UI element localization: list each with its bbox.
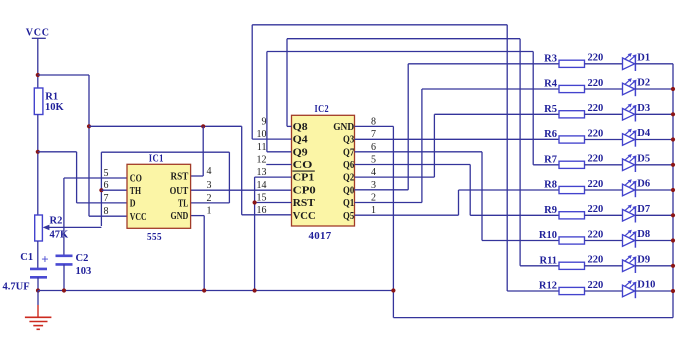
node CP1-RST junction (253, 200, 257, 204)
svg-text:Q3: Q3 (343, 134, 355, 146)
svg-text:D6: D6 (637, 179, 650, 190)
node bus junction D7 (671, 213, 675, 217)
svg-text:R4: R4 (544, 79, 558, 90)
op-amp U1 IC1 555 timer (127, 164, 191, 228)
wire 4017 pin13 CP1 tied to pin15 RST and rail (255, 176, 292, 178)
svg-text:R1: R1 (45, 92, 58, 103)
node bus junction D3 (671, 112, 675, 116)
resistor R1 (34, 88, 43, 115)
svg-text:C1: C1 (20, 252, 33, 263)
svg-text:D3: D3 (637, 103, 650, 114)
wire D7 to cathode bus (635, 214, 673, 216)
LED D1 (623, 58, 635, 70)
wire 555 OUT to 4017 CP0 (191, 189, 292, 191)
svg-text:220: 220 (588, 280, 604, 291)
svg-text:Q9: Q9 (293, 146, 309, 158)
wire R2 to C1 (37, 241, 39, 269)
svg-text:47K: 47K (50, 230, 70, 241)
svg-text:2: 2 (207, 193, 212, 204)
svg-text:R7: R7 (544, 154, 557, 165)
svg-text:RST: RST (171, 171, 189, 183)
wire A VCC distribution y126 (89, 125, 242, 127)
wire 555 pin6 TH stub (101, 189, 127, 191)
node CP1 rail junction (253, 288, 257, 292)
resistor R12 220 (559, 287, 585, 294)
svg-text:CO: CO (130, 173, 142, 185)
LED D4 (623, 134, 635, 146)
svg-text:D4: D4 (637, 128, 651, 139)
wire VCC branch to x=89 vertical (38, 74, 89, 76)
svg-text:4017: 4017 (309, 231, 332, 242)
svg-text:220: 220 (588, 229, 604, 240)
svg-text:Q7: Q7 (343, 146, 355, 158)
LED D5 (623, 159, 635, 171)
wire R1 to R2 (37, 115, 39, 216)
svg-text:R8: R8 (544, 180, 557, 191)
svg-text:1: 1 (207, 206, 212, 217)
wire R10 to LED D8 (585, 240, 623, 242)
capacitor C2 (56, 255, 73, 258)
wire R9 to LED D7 (585, 214, 623, 216)
node wireA branch at x89 (87, 124, 91, 128)
wire D6 to cathode bus (635, 189, 673, 191)
wire D3 to cathode bus (635, 113, 673, 115)
svg-text:6: 6 (104, 180, 109, 191)
svg-text:R12: R12 (539, 281, 557, 292)
svg-text:220: 220 (588, 255, 604, 266)
node TH junction (99, 188, 103, 192)
counter U2 IC2 4017 (292, 115, 355, 226)
wire 4017 pin7 Q3 to R6 row (355, 138, 560, 140)
svg-text:GND: GND (333, 121, 354, 133)
svg-text:8: 8 (104, 206, 109, 217)
node R1-R2 junction (36, 150, 40, 154)
wire 4017 pin1 Q5 to R8 row (355, 214, 459, 216)
node bus junction D8 (671, 238, 675, 242)
svg-text:R6: R6 (544, 129, 557, 140)
svg-text:Q1: Q1 (343, 197, 354, 209)
svg-text:R10: R10 (539, 230, 557, 241)
svg-text:RST: RST (293, 197, 316, 209)
svg-text:14: 14 (257, 180, 267, 191)
svg-text:220: 220 (588, 204, 604, 215)
svg-text:R3: R3 (544, 53, 557, 64)
wire 4017 pin15 RST stub (255, 202, 292, 204)
svg-text:D7: D7 (637, 204, 650, 215)
node 555 GND rail junction (202, 288, 206, 292)
svg-text:Q8: Q8 (293, 121, 309, 133)
LED D3 (623, 109, 635, 121)
svg-text:220: 220 (588, 179, 604, 190)
svg-text:D2: D2 (637, 78, 650, 89)
LED D10 (623, 285, 635, 297)
resistor R11 220 (559, 262, 585, 269)
svg-text:7: 7 (371, 129, 376, 140)
wire 4017 pin2 Q1 to R4 row (355, 202, 422, 204)
svg-text:4.7UF: 4.7UF (3, 282, 30, 293)
resistor R6 220 (559, 136, 585, 143)
svg-text:CO: CO (293, 159, 313, 171)
wire 4017 pin11 Q9 over the top to R7 row (267, 151, 292, 153)
wire 4017 pin6 Q7 to R10 row (355, 151, 483, 153)
wire C2 to rail (63, 264, 65, 290)
wire 4017 pin12 CO stub (266, 164, 291, 166)
node bus junction D5 (671, 163, 675, 167)
wire D2 to cathode bus (635, 88, 673, 90)
wire C1 to ground rail (37, 277, 39, 290)
wire 4017 pin10 Q4 over the top to R12 row (252, 138, 291, 140)
wire R8 to LED D6 (585, 189, 623, 191)
node RST4 branch on wire A (201, 124, 205, 128)
wire D9 to cathode bus (635, 265, 673, 267)
wire R11 to LED D9 (585, 265, 623, 267)
node VCC branch junction (36, 73, 40, 77)
svg-text:220: 220 (588, 154, 604, 165)
resistor R9 220 (559, 212, 585, 219)
wire VCC stem to R1 (37, 38, 39, 88)
wire D8 to cathode bus (635, 240, 673, 242)
svg-text:555: 555 (147, 232, 162, 243)
svg-text:OUT: OUT (170, 185, 189, 197)
svg-text:GND: GND (171, 210, 189, 222)
LED D9 (623, 260, 635, 272)
node C2 rail junction (62, 288, 66, 292)
svg-text:CP0: CP0 (293, 184, 316, 196)
wire D5 to cathode bus (635, 164, 673, 166)
svg-text:Q2: Q2 (343, 172, 354, 184)
potentiometer R2 (35, 215, 43, 241)
wire 4017 pin9 Q8 over the top to R11 row (287, 125, 292, 127)
wire 555 pin5 CO to C2 (64, 177, 127, 179)
svg-text:D5: D5 (637, 153, 650, 164)
svg-text:103: 103 (76, 266, 92, 277)
node bus junction D6 (671, 188, 675, 192)
wire D1 to cathode bus (635, 63, 673, 65)
svg-text:9: 9 (262, 116, 267, 127)
svg-text:10K: 10K (45, 102, 65, 113)
svg-text:Q0: Q0 (343, 184, 354, 196)
node GND rail junction (391, 288, 395, 292)
svg-text:R2: R2 (50, 216, 63, 227)
resistor R5 220 (559, 111, 585, 118)
wire bottom return to LED bus (393, 317, 673, 319)
capacitor C1 polarized (30, 268, 47, 271)
svg-text:16: 16 (257, 205, 267, 216)
wire D10 to cathode bus (635, 290, 673, 292)
wire D4 to cathode bus (635, 139, 673, 141)
svg-text:D10: D10 (637, 280, 655, 291)
node bus junction D9 (671, 264, 675, 268)
wire R7 to LED D5 (585, 164, 623, 166)
resistor R4 220 (559, 85, 585, 92)
wire ground rail (38, 290, 393, 292)
wire 4017 pin5 Q6 to R9 row (355, 164, 471, 166)
svg-text:CP1: CP1 (293, 172, 315, 184)
wire 4017 pin8 GND down to rail (355, 125, 394, 127)
ground (37, 291, 39, 306)
wire R5 to LED D3 (585, 113, 623, 115)
svg-text:R11: R11 (539, 255, 557, 266)
svg-text:D1: D1 (637, 52, 650, 63)
svg-text:Q5: Q5 (343, 210, 354, 222)
LED D8 (623, 235, 635, 247)
wire 555 pin4 RST to wire A (202, 126, 204, 176)
svg-text:7: 7 (104, 193, 109, 204)
svg-text:5: 5 (104, 168, 109, 179)
svg-text:+: + (41, 252, 48, 267)
resistor R7 220 (559, 161, 585, 168)
LED D2 (623, 83, 635, 95)
wire B R1R2 junction to 555 pin7 D (38, 151, 77, 153)
wire A down to 4017 VCC pin16 (241, 126, 243, 215)
svg-text:D8: D8 (637, 229, 650, 240)
svg-text:220: 220 (588, 103, 604, 114)
svg-text:C2: C2 (76, 253, 89, 264)
svg-text:IC1: IC1 (149, 154, 164, 165)
svg-text:D: D (130, 198, 136, 210)
svg-text:TL: TL (178, 198, 188, 210)
svg-text:4: 4 (207, 166, 212, 177)
wire 4017 pin3 Q0 to R3 row (355, 189, 409, 191)
resistor R8 220 (559, 186, 585, 193)
svg-text:VCC: VCC (293, 210, 316, 222)
svg-text:220: 220 (588, 53, 604, 64)
svg-text:D9: D9 (637, 254, 650, 265)
wire R12 to LED D10 (585, 290, 623, 292)
wire R3 to LED D1 (585, 63, 623, 65)
svg-text:TH: TH (130, 185, 142, 197)
wire TH-TL loop around 555 (101, 151, 229, 153)
LED D7 (623, 210, 635, 222)
node bus junction D10 (671, 289, 675, 293)
svg-text:VCC: VCC (130, 211, 147, 223)
wire 555 pin1 GND to rail (191, 215, 205, 217)
node bus junction D4 (671, 137, 675, 141)
wire 4017 pin4 Q2 to R5 row (355, 176, 435, 178)
svg-text:VCC: VCC (26, 27, 50, 38)
svg-text:IC2: IC2 (315, 104, 330, 115)
wire R4 to LED D2 (585, 88, 623, 90)
wire VCC feed vertical x89 to 555 pin8 (88, 75, 90, 216)
svg-text:12: 12 (257, 155, 267, 166)
node bus junction D2 (671, 87, 675, 91)
node C1 rail junction (36, 288, 40, 292)
svg-text:R9: R9 (544, 205, 557, 216)
LED D6 (623, 184, 635, 196)
svg-text:Q4: Q4 (293, 134, 309, 146)
svg-text:11: 11 (257, 142, 267, 153)
overline CP1 (292, 170, 314, 172)
svg-text:220: 220 (588, 78, 604, 89)
wire R6 to LED D4 (585, 139, 623, 141)
svg-text:R5: R5 (544, 104, 557, 115)
svg-text:3: 3 (207, 180, 212, 191)
svg-text:220: 220 (588, 128, 604, 139)
svg-text:Q6: Q6 (343, 159, 355, 171)
resistor R3 220 (559, 60, 585, 67)
wire R2 wiper arrow to TH net (46, 226, 101, 228)
resistor R10 220 (559, 237, 585, 244)
